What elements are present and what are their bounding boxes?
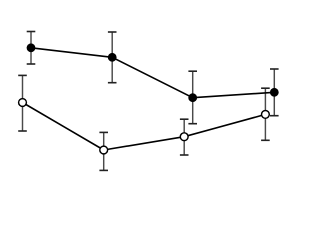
error bar series B point 3: [180, 119, 189, 155]
series A marker 1 (filled circle): [27, 43, 36, 52]
series A marker 3 (filled circle): [188, 93, 197, 102]
series B marker 3 (open circle): [180, 133, 188, 141]
error bar series A point 2: [108, 32, 117, 83]
error bar series A point 1: [27, 32, 36, 65]
error bar series A point 4: [270, 69, 279, 116]
series A marker 2 (filled circle): [108, 53, 117, 62]
series B marker 1 (open circle): [19, 99, 27, 107]
series A connecting line (filled circles): [31, 48, 274, 98]
error bar series B point 2: [99, 132, 108, 170]
series B marker 4 (open circle): [262, 111, 270, 119]
series B connecting line (open circles): [23, 103, 266, 151]
error bar series A point 3: [188, 71, 197, 124]
series B marker 2 (open circle): [100, 146, 108, 154]
series A marker 4 (filled circle): [270, 88, 279, 97]
error bar series B point 4: [261, 88, 270, 140]
error bar series B point 1: [18, 75, 27, 131]
